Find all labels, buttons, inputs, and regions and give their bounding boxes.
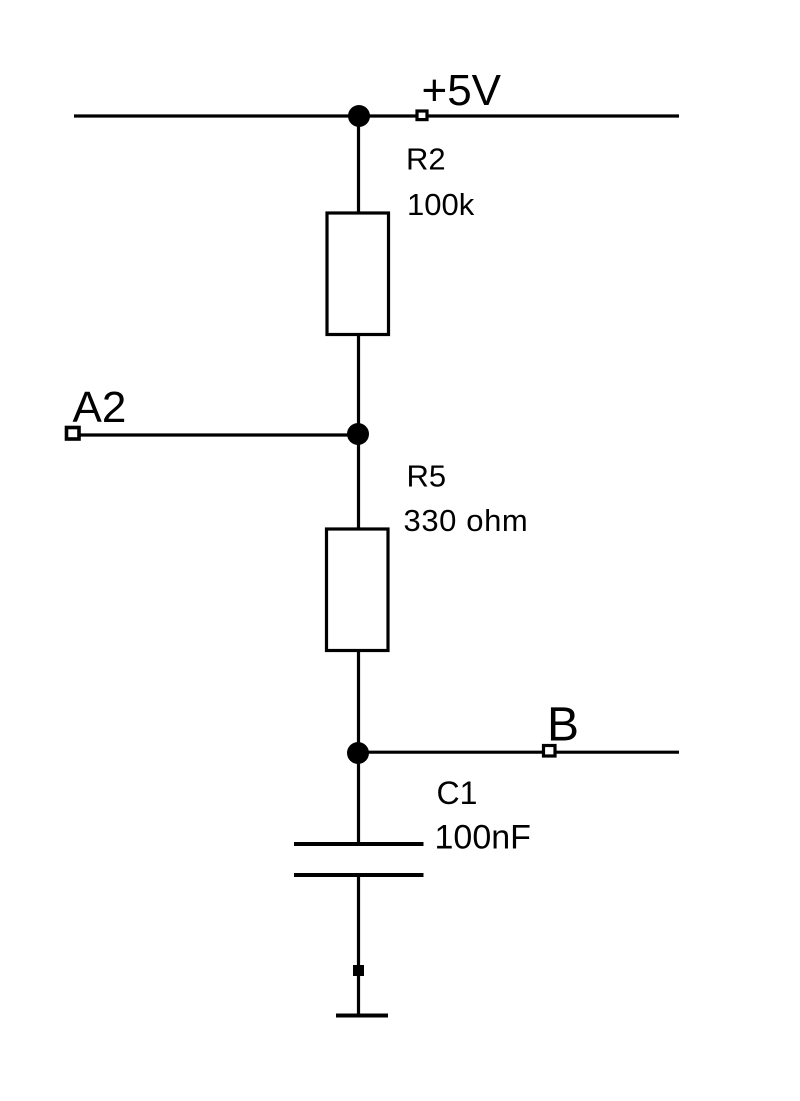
- svg-text:B: B: [547, 699, 579, 752]
- svg-text:330 ohm: 330 ohm: [404, 503, 529, 538]
- svg-text:100k: 100k: [407, 187, 475, 222]
- wire from R5 bottom to node B: [357, 650, 360, 754]
- node B junction: [347, 742, 369, 764]
- wire from node B to C1 top plate: [357, 753, 360, 845]
- wire from C1 bottom plate to ground: [357, 876, 360, 1015]
- node A2 junction: [347, 423, 369, 445]
- pin marker on ground wire: [353, 965, 364, 976]
- wire from +5V rail to R2 top: [357, 116, 360, 213]
- node B terminal marker: [544, 746, 556, 757]
- svg-text:C1: C1: [437, 775, 478, 811]
- wire top +5V rail: [74, 114, 679, 117]
- ground: [336, 1014, 388, 1018]
- node A2 terminal marker: [67, 428, 80, 440]
- wire node A2 horizontal: [79, 433, 358, 436]
- resistor R5: [327, 529, 389, 651]
- capacitor C1 top plate: [294, 842, 424, 846]
- wire from R2 bottom to node A2: [357, 335, 360, 434]
- svg-text:+5V: +5V: [422, 66, 502, 115]
- wire from node A2 to R5 top: [357, 434, 360, 529]
- node +5V terminal marker: [417, 111, 427, 120]
- node +5V junction: [348, 105, 370, 127]
- capacitor C1 bottom plate: [294, 873, 424, 877]
- svg-text:R5: R5: [407, 459, 447, 494]
- wire node B horizontal: [358, 751, 679, 754]
- svg-text:R2: R2: [406, 142, 446, 177]
- svg-text:100nF: 100nF: [435, 819, 531, 857]
- svg-text:A2: A2: [73, 383, 127, 432]
- resistor R2: [327, 213, 389, 335]
